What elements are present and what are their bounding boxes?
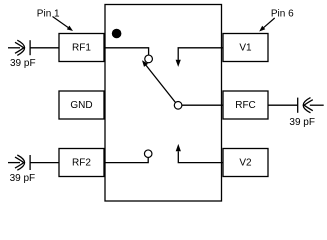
svg-text:V2: V2 [239,158,252,169]
svg-text:39 pF: 39 pF [10,173,36,184]
svg-text:RF1: RF1 [72,43,91,54]
svg-text:39 pF: 39 pF [289,117,315,128]
svg-text:RFC: RFC [235,100,256,111]
svg-text:Pin 6: Pin 6 [271,9,294,20]
svg-text:Pin 1: Pin 1 [37,9,60,20]
svg-text:V1: V1 [239,43,252,54]
svg-text:39 pF: 39 pF [10,58,36,69]
svg-text:GND: GND [70,100,92,111]
svg-text:RF2: RF2 [72,158,91,169]
